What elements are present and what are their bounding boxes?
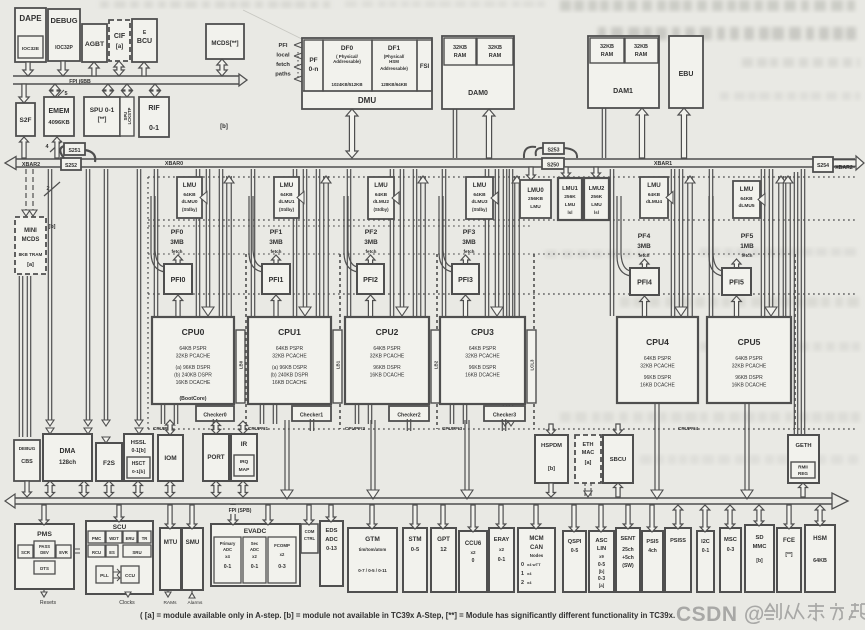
arrow DEBUG CBS to SPB (23, 481, 32, 497)
svg-text:PFI4: PFI4 (637, 280, 652, 287)
svg-text:LIN: LIN (597, 546, 606, 552)
arrow SPB to MCMCAN (531, 505, 541, 529)
switch S251 (60, 145, 70, 158)
switch S252 (61, 158, 81, 170)
svg-text:MAP: MAP (239, 467, 250, 473)
svg-text:PFI: PFI (278, 43, 287, 49)
arrow into DMA 1 (46, 428, 54, 434)
svg-text:PLL: PLL (100, 573, 109, 578)
arrowhead SPB right (832, 493, 848, 509)
svg-text:WDT: WDT (109, 536, 119, 541)
dotted divider col1/col2 (339, 254, 341, 429)
svg-text:[b]: [b] (599, 569, 605, 574)
svg-text:0: 0 (472, 558, 475, 564)
svg-text:64KB: 64KB (280, 192, 293, 198)
svg-text:EVADC: EVADC (244, 528, 267, 535)
svg-text:TR: TR (142, 536, 148, 541)
svg-text:12: 12 (440, 547, 446, 553)
svg-text:(a) 96KB DSPR: (a) 96KB DSPR (272, 365, 307, 371)
arrow CPU into PFI5 (732, 296, 742, 317)
svg-text:FCOMP: FCOMP (274, 543, 290, 548)
svg-text:PF: PF (309, 57, 317, 64)
svg-text:RAM: RAM (454, 53, 467, 59)
arrow SPB to HSM (815, 505, 825, 526)
svg-text:RIF: RIF (148, 105, 160, 112)
svg-text:SCR: SCR (21, 550, 30, 555)
svg-text:XBAR2: XBAR2 (22, 162, 40, 168)
dotted line fetch paths (297, 52, 299, 78)
label DMU (303, 90, 431, 92)
switch S250 (542, 158, 564, 169)
svg-text:HSSL: HSSL (131, 440, 147, 446)
svg-text:RAM: RAM (489, 53, 502, 59)
block FCOMP (268, 537, 296, 583)
wire (250, 169, 252, 316)
wire beside GETH column (793, 172, 795, 462)
svg-text:S252: S252 (65, 163, 77, 169)
wire (354, 404, 356, 424)
dotted line at fetch level (148, 253, 790, 255)
svg-text:FPI (SPB): FPI (SPB) (229, 508, 252, 514)
svg-text:[a]: [a] (27, 262, 34, 268)
arrow EMEM to bus (53, 137, 62, 158)
bus FPI 6BB (13, 75, 240, 77)
wire (212, 419, 214, 431)
arrow PMS left in (74, 549, 80, 553)
bus XBAR0/XBAR1 (14, 158, 855, 160)
svg-text:CPU0: CPU0 (182, 327, 205, 337)
block PFI4 (630, 268, 659, 295)
block S2F (16, 103, 35, 136)
svg-text:+5ch: +5ch (622, 555, 634, 561)
svg-text:CIF: CIF (114, 33, 126, 40)
svg-text:0-5: 0-5 (571, 548, 579, 554)
block DAPE (15, 8, 46, 62)
wires left margin down (18, 276, 20, 437)
arrow CPU into PFI2 (366, 295, 376, 317)
svg-text:PFI0: PFI0 (171, 277, 186, 284)
block PSI5 (642, 531, 663, 592)
svg-text:GTM: GTM (365, 536, 380, 543)
arrow SMU alarms (191, 591, 193, 598)
svg-text:FSI: FSI (420, 64, 430, 70)
svg-text:CCU6: CCU6 (465, 541, 482, 547)
arrow bus to S2F column (19, 84, 29, 103)
svg-text:DEBUG: DEBUG (19, 446, 36, 451)
svg-text:REG: REG (798, 471, 808, 476)
svg-text:ERU: ERU (126, 536, 135, 541)
block LMU2 (584, 178, 609, 220)
svg-text:CPU3: CPU3 (471, 327, 494, 337)
wire DAM0 left (452, 109, 454, 158)
wire CPU4 down to SPB (654, 403, 656, 491)
svg-text:CPU1: CPU1 (278, 327, 301, 337)
svg-text:CPUPFI4: CPUPFI4 (678, 426, 699, 432)
svg-text:FCE: FCE (783, 538, 795, 544)
block DAM0 RAM left (444, 38, 476, 65)
svg-text:LMU1: LMU1 (562, 186, 579, 192)
arrow PORT to SPB (212, 481, 221, 497)
svg-text:96KB DSPR: 96KB DSPR (735, 375, 763, 381)
block CPU2 (345, 317, 429, 404)
arrow CPU into PFI1 (271, 295, 281, 317)
svg-text:AGBT: AGBT (85, 41, 105, 48)
arrow SPB to SCU (114, 505, 124, 522)
svg-text:(a) 96KB DSPR: (a) 96KB DSPR (175, 365, 210, 371)
arrow SPB to ERAY (496, 505, 506, 529)
arrow SPB to FCE (784, 505, 794, 529)
svg-text:PMS: PMS (37, 531, 52, 538)
arrow fetch into PFI5 (732, 259, 741, 269)
arrow SPB to PMS (39, 505, 49, 525)
svg-text:3MB: 3MB (637, 243, 651, 250)
svg-text:CPU4: CPU4 (646, 337, 669, 347)
block CPU3 (440, 317, 525, 404)
svg-text:x4: x4 (527, 571, 532, 576)
arrow fetch into PFI3 (461, 255, 470, 265)
svg-text:ETH: ETH (583, 442, 594, 448)
notch arrow LMU dLMU5 (758, 194, 765, 206)
svg-text:BCU: BCU (137, 38, 152, 45)
wire (47, 169, 49, 420)
svg-text:64KB: 64KB (648, 192, 661, 198)
svg-text:0-1: 0-1 (149, 125, 159, 132)
svg-text:64KB: 64KB (740, 196, 753, 202)
svg-text:SENT: SENT (621, 536, 637, 542)
arrow HSSL to SPB (134, 481, 143, 497)
block MTU (160, 528, 181, 590)
arrow SPB to EDSADC (326, 505, 336, 522)
dashed wire XBAR2 to MINI MCDS (25, 169, 27, 210)
svg-text:lsl: lsl (594, 210, 599, 215)
svg-text:PF0: PF0 (171, 229, 184, 236)
svg-text:x2: x2 (280, 552, 285, 557)
block EBU (669, 36, 703, 108)
svg-text:(Stdby): (Stdby) (279, 207, 295, 212)
arrow SPB to QSPI (569, 505, 579, 532)
svg-text:[a]: [a] (116, 44, 123, 50)
svg-text:DMU: DMU (358, 96, 376, 105)
block CPU5 (707, 317, 791, 403)
svg-text:RAM: RAM (635, 52, 648, 58)
svg-text:IR: IR (241, 441, 248, 448)
block PORT (203, 434, 229, 481)
arrow SPB to MSC (725, 505, 735, 529)
svg-text:MINI: MINI (24, 228, 37, 234)
svg-text:SPU 0-1: SPU 0-1 (90, 107, 115, 114)
wire (412, 169, 414, 316)
block I2C (697, 531, 714, 592)
block PFI0 (164, 264, 192, 294)
wire (441, 169, 443, 316)
bleed-through ghost text (100, 1, 330, 8)
wire (272, 404, 274, 424)
svg-text:CCU: CCU (125, 573, 136, 578)
svg-text:dLMU1: dLMU1 (279, 199, 295, 205)
svg-text:lsl: lsl (568, 210, 573, 215)
wire (346, 169, 348, 316)
svg-text:(b) 240KB DSPR: (b) 240KB DSPR (271, 373, 309, 379)
switch S254 (813, 157, 833, 172)
block IOC32E inside DAPE (18, 36, 43, 58)
notch arrow LMU dLMU3 (491, 192, 498, 204)
svg-text:LB0: LB0 (239, 360, 244, 369)
svg-text:0-n: 0-n (309, 66, 319, 73)
svg-text:LB2: LB2 (434, 360, 439, 369)
block Sec ADC (243, 537, 266, 583)
block DMU outer (302, 38, 432, 109)
svg-text:LMU: LMU (280, 182, 294, 189)
svg-text:DEBUG: DEBUG (50, 16, 77, 25)
block HSM (805, 525, 835, 592)
wire left of CPU4 (609, 169, 611, 316)
block MSC (720, 528, 741, 592)
svg-text:0-5: 0-5 (411, 547, 420, 553)
svg-text:DAM0: DAM0 (468, 90, 488, 97)
arrow bus to LMU2 (592, 167, 601, 178)
arrow SCU clocks (125, 592, 131, 597)
svg-text:PF5: PF5 (741, 233, 754, 240)
wire with arrow into CPU top (205, 169, 207, 308)
arrow HSPDM to SPB (547, 483, 556, 497)
wire (367, 404, 369, 424)
svg-text:4096KB: 4096KB (48, 120, 69, 126)
dotted region top (148, 176, 855, 178)
wire (309, 419, 311, 431)
arrow bus-EMEM (50, 84, 60, 97)
arrow PLL to CCU (113, 569, 120, 581)
svg-text:MCDS[**]: MCDS[**] (211, 40, 238, 47)
svg-text:0-1: 0-1 (702, 548, 710, 554)
block PFI5 (722, 268, 751, 295)
svg-text:(b) 240KB DSPR: (b) 240KB DSPR (174, 373, 212, 379)
svg-text:32KB PCACHE: 32KB PCACHE (640, 364, 675, 370)
svg-text:LMU2: LMU2 (589, 186, 605, 192)
svg-text:CPUPFI2: CPUPFI2 (345, 426, 366, 432)
svg-text:PF3: PF3 (463, 229, 476, 236)
svg-text:GPT: GPT (437, 536, 450, 543)
block PLL (96, 566, 113, 583)
svg-text:LMU: LMU (473, 182, 487, 189)
svg-text:256KB: 256KB (528, 196, 543, 202)
svg-text:tim/tom/atom: tim/tom/atom (359, 547, 387, 552)
svg-text:PF4: PF4 (638, 233, 651, 240)
svg-text:CPUPFI3: CPUPFI3 (442, 426, 463, 432)
block interface LB0 of CPU0 (236, 330, 245, 403)
dotted region right border (794, 254, 796, 429)
block COM CTRL (301, 524, 318, 553)
svg-text:EMEM: EMEM (49, 108, 70, 115)
arrow DMA2 to SPB (80, 481, 89, 497)
svg-text:PSI5S: PSI5S (670, 538, 686, 544)
svg-text:SCU: SCU (113, 524, 127, 531)
svg-text:[b]: [b] (548, 466, 555, 472)
block PF 0-n (304, 40, 323, 91)
svg-text:PFI5: PFI5 (729, 280, 744, 287)
svg-text:16KB DCACHE: 16KB DCACHE (370, 373, 405, 379)
svg-text:F2S: F2S (103, 460, 116, 467)
svg-text:PASS: PASS (39, 544, 50, 549)
svg-text:PFI2: PFI2 (363, 277, 378, 284)
dotted region left border (147, 177, 149, 429)
svg-text:PSI5: PSI5 (646, 539, 658, 545)
arrow into HSSL (135, 428, 143, 434)
svg-text:0-1: 0-1 (498, 557, 506, 563)
block PSI5S (665, 528, 691, 592)
svg-text:local: local (276, 53, 290, 59)
block LMU dLMU5 (733, 181, 760, 218)
block PFI1 (262, 264, 290, 294)
block EVR (56, 545, 71, 558)
arrow DMA1 to SPB (46, 481, 55, 497)
arrow into F2S (102, 437, 110, 443)
svg-text:HSM: HSM (813, 535, 827, 542)
arrow into HSPDM top (547, 424, 556, 435)
arrow SPB to GTM (367, 505, 377, 529)
arrow bus to LMU0 (527, 167, 536, 180)
svg-text:4ch: 4ch (648, 548, 657, 554)
block MCDS (206, 24, 244, 59)
svg-text:IRQ: IRQ (240, 459, 249, 465)
arrow into PORT top (212, 421, 221, 434)
wire (218, 169, 220, 316)
arrow DMU to XBAR (346, 109, 358, 158)
arrow SPB to ASCLIN (596, 505, 606, 532)
arrow bus to LMU1 (562, 167, 571, 178)
arrow MTU RAMs (167, 590, 169, 592)
svg-text:ADC: ADC (250, 547, 259, 552)
block TR (138, 531, 151, 543)
label FPI (SPB) (216, 505, 264, 514)
block SCR (18, 545, 33, 558)
arrow SPB to EVADC a (228, 505, 238, 525)
block HSPDM (535, 435, 568, 483)
block DF0 (323, 40, 372, 91)
block DMA (43, 434, 92, 481)
svg-text:LB1: LB1 (336, 360, 341, 369)
wire with arrow up at XBAR (420, 176, 422, 316)
svg-text:64KB PSPR: 64KB PSPR (373, 346, 401, 352)
svg-text:2: 2 (521, 580, 524, 586)
svg-text:Checker1: Checker1 (300, 413, 323, 419)
svg-text:LMU: LMU (647, 182, 661, 189)
svg-text:MSC: MSC (724, 537, 738, 543)
wire (136, 169, 138, 420)
svg-text:Primary: Primary (220, 541, 236, 546)
wire (173, 404, 175, 424)
block DAM1 RAM right (625, 38, 658, 63)
block LMU dLMU2 (368, 177, 394, 219)
block GETH (788, 435, 819, 483)
svg-text:fetch: fetch (271, 249, 282, 254)
block MINI MCDS dashed (15, 217, 46, 274)
block ERU (123, 531, 137, 543)
svg-text:32KB: 32KB (600, 44, 614, 50)
block CCU (121, 566, 139, 583)
svg-text:0-3: 0-3 (727, 547, 735, 553)
block IRQ MAP inside IR (234, 455, 254, 476)
svg-text:64KB PSPR: 64KB PSPR (469, 346, 497, 352)
block SCU (86, 521, 153, 594)
block SPU (84, 97, 120, 136)
switch S253 (524, 147, 577, 158)
arrow DEBUG to bus (58, 61, 68, 76)
svg-text:LMU: LMU (740, 186, 754, 193)
wire (160, 404, 162, 424)
wire with arrow up at XBAR (323, 176, 325, 316)
svg-text:FPI (6BB: FPI (6BB (69, 79, 91, 85)
svg-text:96KB DSPR: 96KB DSPR (469, 365, 497, 371)
svg-text:128KB/64KB: 128KB/64KB (381, 82, 407, 87)
block PFI2 (357, 264, 384, 294)
svg-text:16KB DCACHE: 16KB DCACHE (272, 380, 307, 386)
svg-text:32KB PCACHE: 32KB PCACHE (465, 354, 500, 360)
svg-text:8KB TRAM: 8KB TRAM (19, 252, 43, 257)
block QSPI (563, 531, 586, 592)
svg-text:(Stdby): (Stdby) (182, 207, 198, 212)
arrowhead XBAR2 right (832, 160, 858, 167)
svg-text:0-1: 0-1 (251, 564, 259, 570)
svg-text:Addressable): Addressable) (333, 59, 361, 64)
svg-text:S254: S254 (817, 163, 829, 169)
svg-text:x2: x2 (499, 547, 505, 552)
arrow bus-SPU 2 (122, 84, 132, 97)
watermark hanzi glyphs (764, 603, 865, 620)
svg-text:Checker3: Checker3 (493, 413, 516, 419)
svg-text:Checker0: Checker0 (203, 413, 226, 419)
block Checker2 of CPU2 (389, 406, 429, 421)
block SBCU (603, 435, 633, 483)
svg-text:dLMU5: dLMU5 (739, 203, 755, 209)
wire with arrow up at XBAR (514, 176, 516, 316)
svg-text:GETH: GETH (795, 443, 811, 449)
dotted divider col0/col1 (245, 254, 247, 429)
svg-text:dLMU4: dLMU4 (646, 199, 662, 205)
svg-text:RMII: RMII (798, 465, 808, 470)
block Checker0 of CPU0 (196, 406, 234, 421)
svg-text:EVR: EVR (59, 550, 68, 555)
block STM (403, 528, 427, 592)
block HSSL (124, 434, 153, 481)
arrow SPB to MTU (165, 505, 175, 529)
svg-text:0-3: 0-3 (598, 576, 605, 582)
svg-text:MTU: MTU (164, 539, 178, 546)
wire (708, 169, 710, 316)
block F2S (96, 443, 122, 481)
svg-text:CAN: CAN (530, 545, 543, 551)
arrow fetch into PFI1 (272, 255, 281, 265)
block interface LB2 of CPU2 (431, 330, 440, 403)
svg-text:3MB: 3MB (364, 239, 378, 246)
svg-text:64KB PSPR: 64KB PSPR (735, 356, 763, 362)
block SMU (182, 528, 203, 590)
arrow into SBCU top (614, 424, 623, 435)
block RCU (88, 545, 105, 557)
svg-text:[a]: [a] (585, 460, 592, 466)
arrow SPB to PSI5 (647, 505, 657, 532)
arrow fetch into PFI0 (174, 255, 183, 265)
wire (292, 169, 294, 316)
svg-text:fetch: fetch (639, 253, 650, 258)
svg-text:0-5: 0-5 (598, 562, 605, 568)
svg-text:MCM: MCM (529, 536, 543, 542)
block PASS DEV (34, 541, 55, 558)
arrow IR to SPB (239, 481, 248, 497)
block PFI3 (452, 264, 479, 294)
block PMS (15, 524, 74, 589)
svg-text:(BootCore): (BootCore) (179, 396, 206, 402)
wire with arrow into CPU top (494, 169, 496, 308)
